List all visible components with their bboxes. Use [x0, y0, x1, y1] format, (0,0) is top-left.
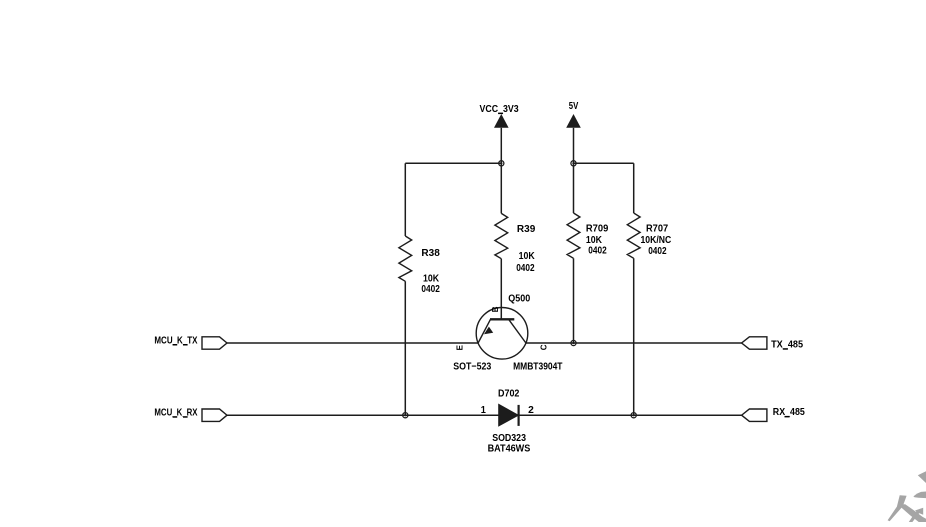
svg-text:0402: 0402: [516, 263, 535, 274]
svg-text:Q500: Q500: [508, 293, 530, 304]
svg-text:10K/NC: 10K/NC: [641, 235, 672, 246]
svg-text:R709: R709: [586, 223, 609, 234]
svg-text:C: C: [539, 344, 548, 350]
svg-text:10K: 10K: [423, 273, 440, 284]
svg-text:0402: 0402: [421, 284, 440, 295]
svg-text:0402: 0402: [588, 246, 607, 257]
svg-text:10K: 10K: [586, 235, 603, 246]
svg-text:D702: D702: [498, 389, 520, 400]
svg-text:R38: R38: [421, 248, 440, 259]
svg-text:B: B: [491, 306, 500, 312]
svg-text:SOT−523: SOT−523: [453, 362, 491, 373]
svg-text:5V: 5V: [569, 101, 579, 112]
svg-text:R707: R707: [646, 223, 669, 234]
svg-text:2: 2: [528, 405, 534, 416]
svg-text:SOD323: SOD323: [492, 433, 526, 444]
svg-text:10K: 10K: [519, 251, 536, 262]
svg-text:0402: 0402: [648, 246, 667, 257]
svg-text:MMBT3904T: MMBT3904T: [513, 362, 562, 373]
svg-text:R39: R39: [517, 224, 536, 235]
svg-text:1: 1: [481, 405, 487, 416]
svg-text:E: E: [456, 344, 465, 350]
svg-text:BAT46WS: BAT46WS: [488, 443, 531, 454]
